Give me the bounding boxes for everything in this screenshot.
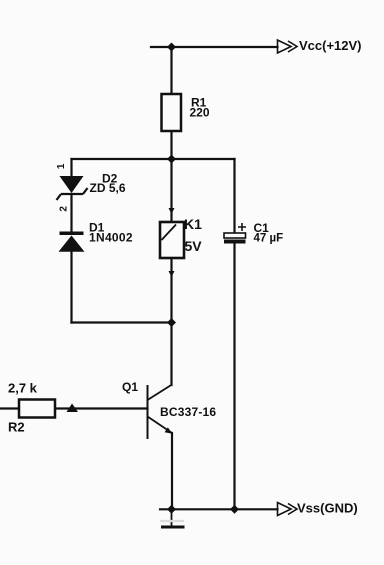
ground symbol [160, 509, 185, 527]
junction node emitter at ground rail [167, 505, 176, 514]
wire C1 bottom to ground rail [233, 244, 235, 510]
svg-text:K1: K1 [184, 216, 202, 232]
wire R1 bottom to node [170, 131, 172, 159]
wire D2 cathode to D1 cathode [70, 194, 72, 233]
svg-text:BC337-16: BC337-16 [160, 405, 216, 419]
port Vcc(+12V) [278, 38, 362, 53]
junction node C1 at ground rail [230, 505, 239, 514]
wire node to K1 top [170, 159, 172, 222]
svg-text:47 µF: 47 µF [254, 233, 284, 245]
wire bottom of diode branch to node [72, 321, 172, 323]
svg-text:1N4002: 1N4002 [89, 231, 133, 245]
wire top rail Vcc [151, 46, 278, 48]
label C1 [254, 221, 284, 245]
port Vss(GND) [278, 501, 358, 516]
svg-text:1: 1 [56, 163, 67, 169]
label K1 [184, 216, 202, 254]
wire bottom rail Vss [160, 508, 278, 510]
junction node below R1 [167, 155, 176, 164]
transistor Q1 [148, 385, 173, 440]
resistor R2 [19, 400, 55, 418]
label D2 [90, 172, 126, 196]
wire base from left edge to R2 [0, 407, 19, 409]
svg-text:2: 2 [59, 206, 70, 212]
svg-text:ZD 5,6: ZD 5,6 [90, 181, 126, 195]
wire K1 bottom to collector node [170, 258, 172, 323]
svg-text:Q1: Q1 [122, 380, 138, 394]
diode D1 [59, 232, 85, 252]
wire D1 anode down [70, 252, 72, 323]
wire C1 branch down from node rail [233, 159, 235, 233]
svg-text:2,7 k: 2,7 k [8, 381, 38, 396]
relay K1 [160, 208, 184, 277]
junction node on Vcc rail [167, 43, 176, 52]
label R1 value [190, 96, 210, 120]
svg-text:R2: R2 [8, 420, 25, 435]
wire collector vertical [170, 323, 172, 386]
wire left branch down to D2 [70, 159, 72, 177]
resistor R1 [162, 94, 182, 131]
label D1 [89, 221, 133, 245]
junction node collector [167, 318, 176, 327]
wire Vcc rail to R1 top [170, 47, 172, 94]
svg-text:Vcc(+12V): Vcc(+12V) [299, 38, 362, 53]
svg-text:Vss(GND): Vss(GND) [297, 501, 358, 516]
wire emitter vertical [171, 433, 173, 509]
diode D2 zener [57, 176, 88, 200]
wire node horizontal rail [72, 158, 235, 160]
capacitor C1 [224, 223, 246, 244]
wire R2 to transistor base [55, 407, 148, 409]
node marker on base wire [67, 404, 79, 413]
svg-text:5V: 5V [185, 238, 203, 254]
svg-text:220: 220 [190, 106, 210, 120]
